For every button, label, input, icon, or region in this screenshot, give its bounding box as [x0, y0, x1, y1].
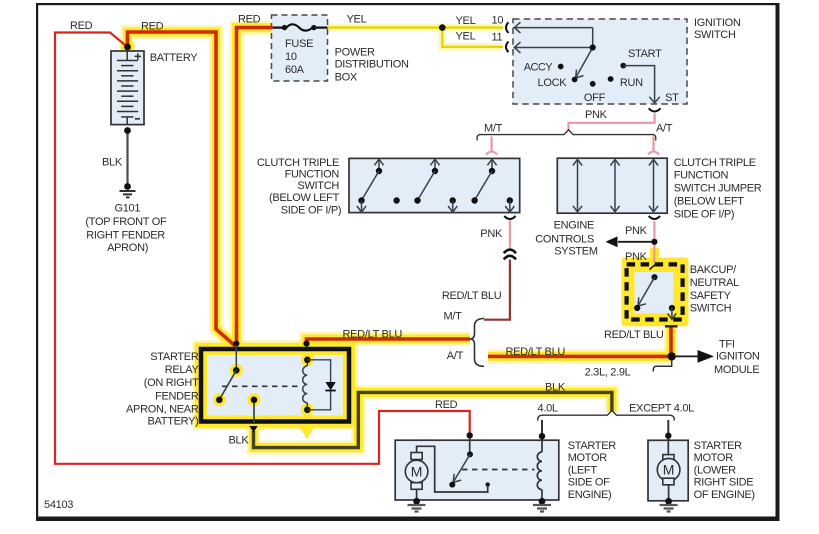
fuse terminal dot left: [282, 25, 287, 30]
backup switch output dot: [669, 305, 675, 311]
connector pin 11: [506, 42, 509, 53]
svg-text:EXCEPT 4.0L: EXCEPT 4.0L: [629, 403, 694, 415]
svg-text:RED/LT BLU: RED/LT BLU: [506, 346, 566, 358]
pink entry arc clutch switch: [486, 152, 497, 155]
svg-text:RED/LT BLU: RED/LT BLU: [604, 329, 664, 341]
wire RED thin battery to starter motor: [55, 33, 470, 464]
node 4.0L wire: [539, 433, 545, 439]
relay diode: [325, 382, 335, 390]
left motor feed line: [469, 438, 471, 454]
svg-text:SIDE OF: SIDE OF: [568, 477, 610, 489]
svg-text:APRON, NEAR: APRON, NEAR: [126, 403, 199, 415]
fuse terminal dot right: [311, 25, 316, 30]
svg-text:PNK: PNK: [625, 251, 648, 263]
clutch switch unit1 up arrow: [378, 159, 380, 171]
relay coil: [303, 360, 308, 410]
svg-text:YEL: YEL: [456, 15, 476, 27]
svg-text:RED: RED: [70, 20, 93, 32]
pink entry arc jumper: [648, 152, 659, 155]
left motor switch lower dot: [449, 482, 455, 488]
wire highlight YEL branch to ignition pin 11: [442, 28, 502, 47]
svg-text:LOCK: LOCK: [538, 77, 568, 89]
node battery positive: [124, 44, 131, 51]
svg-text:FUNCTION: FUNCTION: [674, 170, 729, 182]
left motor switch arm: [454, 454, 471, 481]
node EXCEPT 4.0L wire: [665, 433, 671, 439]
svg-text:START: START: [628, 48, 662, 60]
svg-text:OF ENGINE): OF ENGINE): [694, 489, 755, 501]
ignition ACCY dot: [558, 64, 564, 70]
battery internal plates: [117, 51, 138, 125]
svg-text:(LOWER: (LOWER: [694, 464, 737, 476]
wire PNK clutch switch output: [509, 221, 511, 249]
ground G101 symbol: [120, 191, 136, 197]
svg-text:ENGINE: ENGINE: [554, 220, 594, 232]
clutch switch unit1 top dot: [376, 168, 382, 174]
GLOW-LAYER: [213, 353, 314, 416]
relay dashed actuator line: [222, 385, 299, 387]
svg-text:DISTRIBUTION: DISTRIBUTION: [335, 58, 409, 70]
svg-text:11: 11: [492, 32, 503, 44]
svg-text:RED/LT BLU: RED/LT BLU: [442, 290, 502, 302]
svg-text:(ON RIGHT: (ON RIGHT: [144, 377, 199, 389]
wire RED/LT BLU thick A/T to junction: [488, 355, 672, 359]
svg-text:PNK: PNK: [585, 109, 608, 121]
ignition switch box: [513, 19, 687, 104]
clutch switch stray dot 2 with down arrow: [450, 197, 456, 203]
clutch switch unit2 arm: [418, 171, 435, 199]
relay contact glow bottom-center: [248, 393, 261, 406]
svg-text:RED/LT BLU: RED/LT BLU: [343, 328, 403, 340]
backup switch arm: [638, 277, 654, 305]
clutch switch exit dot with down arrow: [507, 197, 513, 203]
svg-text:BATTERY): BATTERY): [148, 416, 199, 428]
option split right hook: [670, 415, 675, 420]
fuse element: [273, 24, 328, 30]
relay coil top dot: [304, 357, 311, 364]
left motor switch pivot dot: [467, 451, 473, 457]
wire RED thick fuse to relay: [237, 28, 273, 346]
option split 4.0L left hook: [538, 415, 543, 420]
clutch triple function switch box: [349, 158, 520, 212]
option split left hook: [477, 135, 479, 141]
relay switch feed line: [235, 345, 237, 370]
svg-text:SWITCH: SWITCH: [297, 180, 339, 192]
clutch switch unit3 up arrow: [491, 159, 493, 171]
relay pin dot top-left: [233, 341, 239, 347]
left motor dashed actuator: [462, 469, 535, 471]
wire YEL fuse to pin 10: [328, 26, 504, 28]
backup switch output arrow: [671, 308, 673, 319]
wire PNK node to engine controls arrow: [618, 241, 654, 243]
node RED at left starter motor: [467, 432, 473, 438]
clutch switch unit1 down arrow: [361, 201, 363, 213]
svg-text:YEL: YEL: [456, 31, 476, 43]
wire RED/LT BLU thick backup switch to junction: [669, 328, 673, 357]
svg-text:TFI: TFI: [719, 339, 735, 351]
wire 4.0L drop to left starter motor: [541, 420, 543, 441]
page frame right: [776, 3, 780, 521]
left motor coil 4.0L: [537, 441, 542, 501]
relay switch lower-left dot: [216, 397, 223, 404]
clutch switch unit2 lower dot: [414, 197, 420, 203]
highlight starter relay box border: [201, 349, 349, 422]
wire highlight fuse to relay: [237, 28, 273, 347]
svg-text:RIGHT SIDE: RIGHT SIDE: [694, 477, 754, 489]
wire PNK drop to jumper A/T: [652, 137, 654, 152]
jumper arrow line 3: [653, 160, 655, 212]
starter motor left box: [395, 440, 559, 500]
svg-text:54103: 54103: [44, 499, 73, 511]
left motor lead to ground: [416, 489, 418, 501]
node PNK junction: [651, 239, 657, 245]
starter relay box border: [201, 349, 349, 422]
fuse box (power distribution box): [272, 15, 328, 81]
brace M/T A/T: [470, 319, 484, 367]
svg-text:ST: ST: [665, 92, 679, 104]
right motor feed line: [667, 438, 669, 455]
svg-text:BLK: BLK: [102, 157, 123, 169]
left motor wiring loop: [417, 446, 488, 492]
svg-text:BATTERY: BATTERY: [150, 52, 199, 64]
page frame bottom: [36, 517, 780, 522]
svg-text:10: 10: [492, 15, 504, 27]
relay diode branch: [307, 360, 330, 410]
page frame top: [36, 3, 780, 5]
svg-text:RED: RED: [141, 21, 164, 33]
svg-text:BLK: BLK: [545, 382, 566, 394]
svg-text:CONTROLS: CONTROLS: [535, 233, 594, 245]
clutch switch unit3 arm: [475, 171, 492, 199]
clutch switch unit1 lower dot: [358, 197, 364, 203]
wire PNK jumper output to node: [653, 221, 655, 262]
node battery negative: [124, 127, 131, 134]
clutch switch unit1 arm: [362, 171, 379, 199]
wire highlight backup switch to junction (soft): [664, 327, 678, 356]
svg-text:60A: 60A: [285, 64, 305, 76]
option split 4.0L / EXCEPT 4.0L: [542, 411, 670, 416]
WIRE-LAYER: [55, 28, 699, 464]
clutch triple function switch jumper box: [557, 158, 667, 213]
svg-text:10: 10: [285, 51, 297, 63]
svg-text:STARTER: STARTER: [568, 440, 617, 452]
svg-text:BLK: BLK: [229, 434, 250, 446]
wire RED thick battery to relay: [128, 32, 236, 347]
svg-text:STARTER: STARTER: [150, 351, 199, 363]
ignition feed line pin 10 with arrow: [515, 27, 593, 29]
svg-text:MOTOR: MOTOR: [568, 452, 608, 464]
ignition rotor arm to LOCK: [576, 48, 593, 78]
highlight backup/neutral safety switch block: [622, 258, 689, 327]
svg-text:(LEFT: (LEFT: [568, 464, 598, 476]
ignition RUN dot: [608, 76, 614, 82]
svg-text:SIDE OF I/P): SIDE OF I/P): [281, 205, 342, 217]
svg-text:SWITCH: SWITCH: [694, 29, 736, 41]
relay switch arm: [219, 370, 236, 400]
wire highlight backup switch to junction: [667, 327, 676, 356]
SYMBOL-LAYER: [117, 22, 714, 511]
left motor M symbol: [411, 453, 422, 460]
clutch switch unit3 lower dot: [471, 197, 477, 203]
wire highlight relay to brace RED/LT BLU (soft): [307, 339, 471, 347]
svg-text:IGNITON: IGNITON: [716, 351, 760, 363]
wire highlight fuse to relay (soft): [237, 28, 273, 347]
right motor M symbol: [663, 455, 674, 462]
ignition START dot: [620, 63, 626, 69]
option split right hook: [653, 135, 655, 141]
svg-text:MOTOR: MOTOR: [694, 452, 734, 464]
ignition feed line pin 11 with arrow: [515, 28, 593, 48]
svg-text:PNK: PNK: [480, 228, 503, 240]
ignition pivot dot: [590, 44, 596, 50]
svg-text:SWITCH: SWITCH: [690, 302, 732, 314]
arrow to TFI ignition module: [698, 350, 715, 363]
svg-text:PNK: PNK: [625, 225, 648, 237]
wire BLK thick relay to engine option split: [254, 392, 612, 447]
relay coil bottom dot: [304, 407, 311, 414]
relay bottom-center dot: [251, 397, 258, 404]
starter motor right box: [648, 440, 688, 501]
backup/neutral safety switch fill: [635, 272, 674, 313]
relay coil glow top: [301, 353, 314, 366]
ignition OFF dot: [590, 81, 596, 87]
node above ground G101: [124, 183, 131, 190]
svg-text:POWER: POWER: [335, 47, 375, 59]
svg-text:ACCY: ACCY: [524, 62, 553, 74]
svg-text:RED: RED: [238, 14, 261, 26]
connector below jumper: [649, 216, 660, 219]
connector below clutch switch: [504, 216, 515, 219]
wire highlight A/T RED/LT BLU to TFI junction (soft): [488, 349, 672, 363]
node YEL junction: [439, 24, 446, 31]
wire BLK battery to ground G101: [126, 131, 128, 187]
jumper arrow line 2: [614, 160, 616, 212]
ignition START to ST line: [623, 66, 654, 103]
connector below ST: [649, 108, 661, 111]
node glow battery positive: [121, 40, 135, 54]
svg-text:CLUTCH TRIPLE: CLUTCH TRIPLE: [674, 157, 756, 169]
ignition LOCK dot: [572, 77, 578, 83]
wire stub junction to 2.3L tick: [653, 361, 671, 372]
wire highlight YEL fuse to ignition pin 10: [328, 24, 503, 32]
relay switch top dot: [233, 367, 240, 374]
battery plus sign: [135, 53, 141, 59]
svg-text:(BELOW LEFT: (BELOW LEFT: [674, 196, 745, 208]
svg-text:STARTER: STARTER: [694, 440, 743, 452]
svg-text:SWITCH JUMPER: SWITCH JUMPER: [674, 183, 762, 195]
svg-text:M: M: [663, 462, 675, 478]
svg-text:FENDER: FENDER: [155, 390, 199, 402]
battery body: [111, 51, 144, 125]
jumper arrow line 1: [577, 160, 579, 212]
svg-text:4.0L: 4.0L: [538, 403, 558, 415]
relay contact glow lower-left: [213, 393, 226, 406]
svg-text:ENGINE): ENGINE): [568, 489, 612, 501]
starter relay box fill: [208, 356, 343, 415]
relay coil glow bottom: [301, 403, 314, 416]
arrow below relay BLK: [249, 426, 257, 432]
inline connector chevrons: [504, 250, 516, 260]
svg-text:NEUTRAL: NEUTRAL: [690, 277, 739, 289]
svg-text:SIDE OF I/P): SIDE OF I/P): [674, 208, 735, 220]
wire highlight battery to relay: [128, 32, 236, 347]
svg-text:RIGHT FENDER: RIGHT FENDER: [86, 229, 165, 241]
wire YEL branch to pin 11: [442, 28, 503, 47]
wire EXCEPT 4.0L drop to right starter motor: [667, 420, 669, 441]
wire highlight A/T RED/LT BLU to TFI junction: [488, 352, 672, 361]
svg-text:A/T: A/T: [656, 123, 673, 135]
right motor ground: [660, 505, 678, 512]
left motor aux contact dot: [486, 482, 490, 486]
svg-text:RUN: RUN: [620, 77, 643, 89]
wire RED/LT BLU thick relay to brace: [307, 339, 471, 346]
left motor coil ground: [533, 505, 551, 512]
left motor ground: [408, 505, 426, 512]
svg-text:OFF: OFF: [584, 92, 606, 104]
wire highlight BLK relay to engine split (soft): [254, 392, 612, 447]
wire RED/LT BLU M/T to brace: [484, 260, 510, 320]
svg-text:RELAY: RELAY: [165, 364, 200, 376]
svg-text:FUSE: FUSE: [285, 38, 313, 50]
svg-text:2.3L, 2.9L: 2.3L, 2.9L: [585, 366, 631, 378]
backup switch entry tick: [650, 263, 658, 270]
arrow to engine controls system: [606, 236, 618, 247]
relay bottom-center lead: [253, 403, 255, 424]
svg-text:IGNITION: IGNITION: [694, 17, 741, 29]
svg-text:SYSTEM: SYSTEM: [554, 246, 598, 258]
wire highlight BLK relay to engine split: [254, 392, 612, 447]
svg-text:SAFETY: SAFETY: [690, 290, 732, 302]
backup switch lower dot: [634, 305, 640, 311]
backup/neutral safety switch dashed border: [627, 264, 683, 319]
svg-text:CLUTCH TRIPLE: CLUTCH TRIPLE: [257, 157, 339, 169]
connector pin 10: [506, 22, 509, 33]
svg-text:A/T: A/T: [447, 350, 464, 362]
clutch switch unit3 top dot: [489, 168, 495, 174]
node TFI junction: [668, 352, 676, 360]
page frame left: [36, 3, 38, 521]
svg-text:BOX: BOX: [335, 72, 358, 84]
svg-text:(BELOW LEFT: (BELOW LEFT: [269, 192, 340, 204]
wire PNK ignition ST to option split: [569, 114, 655, 131]
clutch switch unit2 top dot: [432, 168, 438, 174]
clutch switch stray dot 1: [393, 197, 399, 203]
HIGHLIGHT-LAYER: [121, 28, 689, 448]
battery minus sign: [135, 118, 140, 120]
right motor lead to ground: [668, 485, 670, 501]
svg-text:FUNCTION: FUNCTION: [285, 169, 340, 181]
svg-text:M/T: M/T: [443, 311, 462, 323]
svg-text:YEL: YEL: [347, 14, 367, 26]
relay pin dot top-right: [303, 341, 309, 347]
svg-text:M: M: [411, 464, 423, 480]
svg-text:M/T: M/T: [484, 123, 503, 135]
wire junction to TFI arrow: [676, 355, 699, 357]
option split M/T A/T: [479, 130, 654, 135]
wire highlight battery to relay (soft): [128, 32, 236, 347]
backup switch top dot: [651, 274, 657, 280]
svg-text:MODULE: MODULE: [714, 364, 759, 376]
highlight arrow below relay: [299, 425, 316, 439]
svg-text:BAKCUP/: BAKCUP/: [690, 264, 737, 276]
svg-text:APRON): APRON): [107, 242, 148, 254]
svg-text:RED: RED: [435, 399, 458, 411]
wire highlight relay to brace RED/LT BLU: [307, 339, 471, 347]
clutch switch unit2 up arrow: [434, 159, 436, 171]
svg-text:G101: G101: [114, 203, 140, 215]
connector bar below backup switch: [665, 325, 678, 327]
wire highlight PNK stub into backup switch: [650, 248, 659, 262]
relay contact glow top: [230, 364, 243, 377]
svg-text:(TOP FRONT OF: (TOP FRONT OF: [85, 216, 167, 228]
wire PNK drop to clutch switch M/T: [491, 137, 493, 152]
